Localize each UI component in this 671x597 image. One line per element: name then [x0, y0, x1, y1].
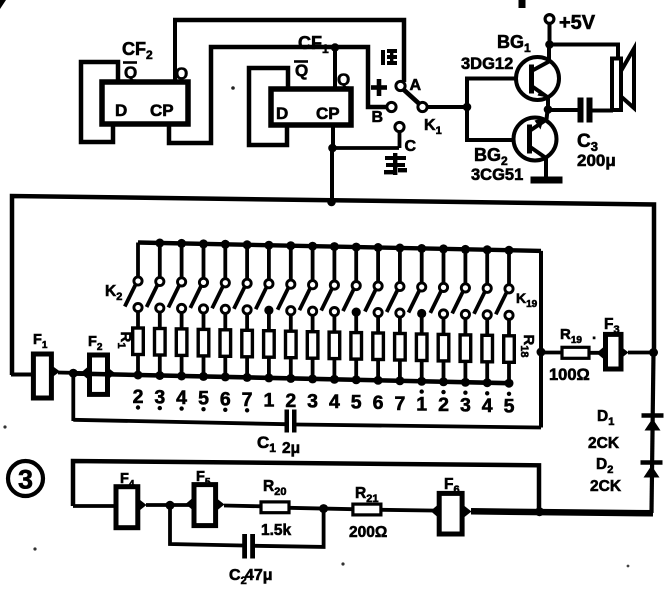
svg-text:3: 3 — [307, 391, 318, 413]
capacitor C1 — [285, 410, 290, 433]
resistor R11 — [351, 333, 362, 360]
figure number circle 3 — [8, 461, 43, 496]
diode D1 — [642, 413, 664, 417]
capacitor C2 — [242, 534, 247, 559]
wire junction down to C1 — [71, 373, 75, 421]
svg-text:4: 4 — [176, 387, 187, 409]
switch K8 — [264, 241, 273, 250]
resistor R18 — [504, 336, 515, 363]
resistor R12 — [373, 333, 384, 360]
scan speck 1 — [231, 86, 235, 90]
wire left rail to F1 — [11, 373, 34, 377]
resistor R21 — [353, 504, 381, 515]
switch K1 blade — [404, 90, 421, 105]
svg-text:+5V: +5V — [559, 12, 596, 34]
svg-text:6: 6 — [373, 392, 384, 414]
junction output node — [544, 105, 553, 114]
capacitor C3 — [578, 98, 584, 123]
wire to R19 — [541, 351, 562, 355]
wire F5 to R20 — [224, 504, 261, 509]
switch K5 — [199, 239, 208, 248]
wire C2 branch right — [255, 509, 324, 547]
wire F6 to right rail — [471, 511, 653, 513]
svg-text:.: . — [592, 326, 596, 343]
transistor BG1 emitter — [532, 86, 549, 98]
switch K18 — [483, 245, 492, 254]
svg-text:1.5k: 1.5k — [261, 522, 292, 539]
wire +5V to speaker top — [550, 45, 619, 60]
junction R19 tap — [537, 348, 546, 357]
svg-text:2μ: 2μ — [282, 440, 300, 457]
resistor R19 — [562, 347, 589, 358]
diode D2 — [641, 460, 663, 464]
resistor R17 — [482, 335, 493, 362]
switch K6 — [221, 240, 230, 249]
junction +5V node — [545, 40, 554, 49]
wire CF1 Q up to rail — [333, 45, 337, 89]
mode glyph (CJK) near A — [381, 49, 397, 65]
wire C2 branch left — [170, 505, 243, 545]
switch K1 contact A — [396, 81, 405, 90]
resistor R9 — [307, 332, 318, 359]
junction C2 left — [166, 501, 175, 510]
svg-text:4: 4 — [329, 391, 340, 413]
svg-text:2CK: 2CK — [588, 435, 620, 452]
wire resistor top bus — [138, 243, 541, 251]
switch K19 — [505, 246, 514, 255]
svg-text:Q: Q — [295, 61, 308, 80]
junction on oscillator top rail — [327, 198, 336, 207]
svg-text:Q: Q — [337, 70, 350, 89]
jack F5 — [194, 485, 216, 526]
junction node CF1 CP — [328, 144, 337, 153]
switch K4 — [177, 239, 186, 248]
svg-text:3CG51: 3CG51 — [471, 166, 523, 184]
svg-text:2: 2 — [285, 390, 296, 412]
resistor R6 — [242, 330, 253, 357]
junction CF1 Q rail — [331, 43, 339, 51]
svg-text:5: 5 — [198, 388, 209, 410]
wire resistor bottom bus — [76, 374, 509, 384]
svg-text:D: D — [115, 101, 127, 120]
svg-text:A: A — [410, 77, 422, 94]
switch K1 contact C — [395, 122, 404, 131]
transistor BG2 emitter — [530, 120, 547, 132]
wire C1 left segment — [73, 420, 286, 424]
switch K12 — [352, 243, 361, 252]
svg-text:5: 5 — [504, 396, 515, 418]
plus polarity mark — [371, 85, 387, 90]
svg-text:4: 4 — [482, 395, 493, 417]
+5V terminal — [545, 15, 554, 24]
svg-text:3DG12: 3DG12 — [461, 55, 513, 73]
wire R20 to R21 — [289, 508, 353, 509]
svg-text:7: 7 — [394, 393, 405, 415]
wire bottom loop bypass — [73, 461, 539, 511]
svg-text:CP: CP — [150, 101, 174, 120]
junction bypass bottom — [535, 507, 544, 516]
switch K17 — [461, 245, 470, 254]
wire CF2 CP from CF1 Q — [169, 47, 387, 143]
transistor BG2 base bar — [527, 125, 532, 154]
jack F2 — [90, 355, 108, 394]
wire CF2 Qbar feedback loop — [81, 62, 118, 142]
resistor R16 — [460, 335, 471, 362]
svg-text:2CK: 2CK — [590, 478, 622, 495]
transistor BG2 circle — [514, 118, 557, 161]
mode glyph (CJK) near C — [384, 153, 407, 175]
flip-flop CF2 box — [102, 82, 188, 124]
switch K16 — [439, 244, 448, 253]
svg-text:47μ: 47μ — [245, 567, 273, 584]
scan speck 2 — [33, 547, 36, 550]
resistor R15 — [438, 334, 449, 361]
scan artifact top tick — [519, 0, 526, 8]
transistor BG1 collector — [532, 62, 550, 72]
svg-text:5: 5 — [351, 392, 362, 414]
wire C3 to speaker — [593, 109, 614, 113]
switch K2 — [136, 243, 140, 278]
wire K1 pole to transistor bases — [427, 105, 467, 109]
wire CF1 CP down — [331, 125, 335, 148]
resistor R5 — [220, 330, 231, 357]
resistor R1 — [133, 328, 144, 355]
wire F4 to F5 — [146, 503, 194, 507]
wire +5V down — [548, 23, 552, 46]
wire CF1 Qbar feedback loop — [249, 68, 288, 145]
ground — [531, 177, 563, 184]
resistor R8 — [286, 331, 297, 358]
svg-text:6: 6 — [220, 388, 231, 410]
wire CP node to contact C — [332, 146, 399, 150]
switch K7 — [243, 240, 252, 249]
flip-flop CF1 box — [271, 89, 351, 125]
svg-text:100Ω: 100Ω — [549, 366, 590, 384]
svg-text:1: 1 — [416, 393, 427, 415]
wire base node to BG2 base — [467, 107, 528, 140]
wire R19 to F3 — [589, 351, 606, 355]
svg-text:B: B — [372, 109, 384, 126]
wire CF2 Q to top rail — [173, 20, 177, 82]
svg-text:2: 2 — [438, 394, 449, 416]
wire R21 to F6 — [381, 508, 439, 513]
svg-text:1: 1 — [263, 389, 274, 411]
resistor R4 — [198, 329, 209, 356]
junction base node — [463, 103, 472, 112]
resistor R20 — [261, 502, 289, 513]
scan speck 4 — [3, 425, 6, 428]
wire F1 right to junction — [58, 371, 90, 376]
junction C2 right — [319, 504, 328, 513]
resistor R14 — [416, 334, 427, 361]
switch K1 pole contact — [418, 102, 427, 111]
switch K14 — [395, 244, 404, 253]
svg-text:3: 3 — [460, 395, 471, 417]
svg-text:C: C — [405, 138, 417, 155]
svg-text:7: 7 — [242, 389, 253, 411]
wire oscillator loop top rail — [12, 196, 654, 375]
switch K3 — [155, 239, 164, 248]
switch K10 — [308, 242, 317, 251]
resistor R10 — [329, 332, 340, 359]
svg-text:2: 2 — [133, 386, 144, 408]
wire right rail down — [652, 352, 654, 513]
wire top rail to switch contact A — [173, 20, 404, 82]
svg-text:200μ: 200μ — [577, 151, 616, 170]
svg-text:CP: CP — [316, 104, 340, 123]
scan speck 5 — [627, 565, 630, 568]
svg-text:D: D — [276, 104, 288, 123]
jack F6 — [439, 493, 462, 534]
wire bottom bus right vertical (inner box right edge) — [539, 251, 543, 428]
transistor BG1 base bar — [529, 65, 534, 94]
wire C1 right segment — [297, 425, 542, 428]
junction F1-F2 node — [69, 369, 78, 378]
wire CP node down to oscillator rail — [330, 148, 334, 203]
scan artifact top-left corner — [0, 0, 6, 9]
svg-text:3: 3 — [18, 465, 33, 495]
jack F4 — [116, 487, 138, 528]
resistor R3 — [176, 329, 187, 356]
transistor BG1 circle — [516, 57, 559, 100]
jack F1 — [33, 354, 51, 398]
resistor R2 — [155, 329, 166, 356]
switch K1 contact B — [387, 102, 396, 111]
svg-text:3: 3 — [154, 387, 165, 409]
wire F3 to right rail — [628, 351, 655, 355]
switch K11 — [330, 242, 339, 251]
wire contact C stem — [398, 131, 402, 148]
jack F3 — [606, 334, 622, 369]
wire to F4 — [73, 504, 116, 508]
speaker BL — [612, 59, 621, 111]
switch K15 — [417, 244, 426, 253]
resistor R13 — [395, 334, 406, 361]
switch K13 — [374, 243, 383, 252]
transistor BG2 collector — [530, 147, 547, 159]
wire output node to C3 — [548, 108, 578, 112]
svg-text:200Ω: 200Ω — [349, 524, 387, 541]
wire base node to BG1 base — [467, 79, 531, 108]
resistor R7 — [264, 331, 275, 358]
switch K9 — [286, 241, 295, 250]
junction right rail — [649, 348, 658, 357]
svg-text:Q: Q — [124, 63, 137, 82]
scan speck 3 — [341, 562, 344, 565]
